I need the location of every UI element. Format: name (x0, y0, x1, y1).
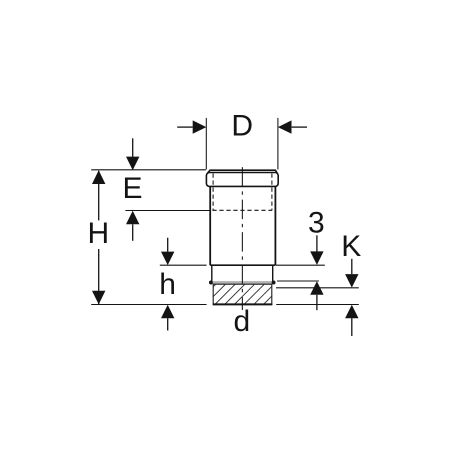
gasket right end cap (272, 281, 276, 285)
fitting body left wall (209, 186, 211, 265)
svg-text:E: E (122, 172, 142, 205)
dimension D extension line left (205, 118, 207, 170)
dimension H top arrow (92, 170, 105, 184)
dimension D extension line right (277, 118, 279, 170)
dimension K down arrow (345, 259, 358, 288)
hatch diagonal lines (185, 284, 285, 306)
dimension D right arrow (278, 120, 307, 133)
dimension H bottom arrow (92, 291, 105, 305)
dimension h up arrow (161, 305, 174, 331)
svg-text:h: h (159, 268, 176, 301)
spigot lower section left wall (211, 265, 213, 281)
dimension h top extension line (160, 264, 207, 266)
hidden inner wall left (dashed) (212, 174, 214, 211)
dimension H line upper segment (98, 171, 100, 221)
svg-text:3: 3 (308, 206, 325, 239)
dimension h down arrow (161, 238, 174, 265)
dimension E up arrow (126, 211, 139, 241)
top extension line (E/H) (91, 169, 206, 171)
dimension H line lower segment (98, 249, 100, 304)
fitting socket bead (top rim) (206, 173, 278, 187)
svg-text:D: D (231, 109, 253, 142)
spigot lower section right wall (272, 265, 274, 281)
socket depth hidden line (dashed) (212, 209, 272, 211)
dimension D left arrow (177, 120, 206, 133)
gasket left end cap (209, 281, 213, 285)
svg-text:K: K (341, 230, 361, 263)
dimension K up arrow (345, 305, 358, 336)
fitting shoulder line (210, 264, 275, 266)
svg-text:H: H (87, 217, 109, 250)
bottom extension line right (276, 304, 359, 306)
svg-text:d: d (234, 305, 251, 338)
vertical centerline (dash-dot) (241, 167, 243, 310)
dimension 3 down arrow (310, 235, 323, 265)
bottom extension line left (91, 304, 206, 306)
hidden inner wall right (dashed) (271, 174, 273, 211)
dimension E bottom extension line (125, 210, 209, 212)
fitting bottom edge (213, 303, 273, 305)
dimension 3 up arrow (310, 281, 323, 310)
dimension 3 top extension line (276, 264, 325, 266)
dimension K top extension line (276, 287, 359, 289)
gasket seal ring gray band (212, 281, 272, 284)
fitting body right wall (274, 186, 276, 265)
hatched insertion section box (213, 284, 272, 304)
dimension E down arrow (126, 138, 139, 170)
dimension 3 bottom extension line (277, 280, 319, 282)
fitting spigot top edge chamfer (208, 170, 278, 173)
